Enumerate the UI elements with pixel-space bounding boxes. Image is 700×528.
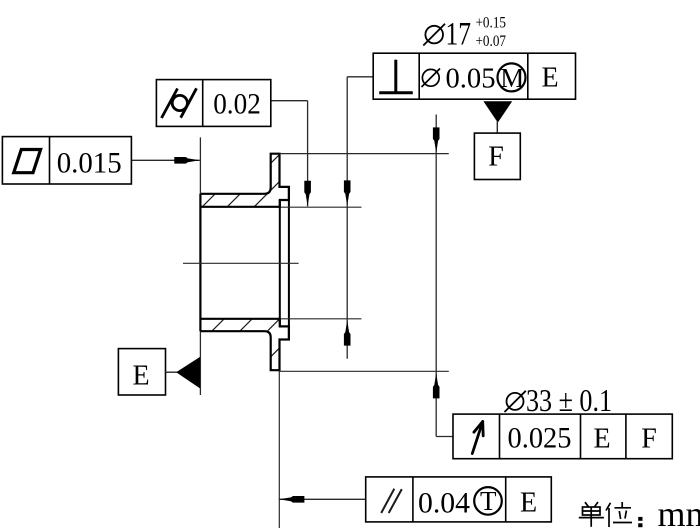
parallelism leader arrow bbox=[279, 496, 305, 503]
part outline top half bbox=[200, 154, 289, 207]
svg-text:M: M bbox=[500, 63, 524, 93]
boss right face edge bbox=[288, 187, 290, 340]
datum E box bbox=[118, 349, 165, 395]
flatness leader arrow bbox=[174, 157, 200, 164]
unit note hanzi wei bbox=[606, 502, 632, 527]
svg-text:0.015: 0.015 bbox=[57, 146, 122, 179]
d17 leader arrow up bbox=[344, 320, 351, 346]
svg-text:+0.15: +0.15 bbox=[476, 15, 507, 32]
centerline bbox=[183, 262, 299, 264]
cylindricity frame bbox=[156, 80, 270, 127]
datum E triangle bbox=[176, 357, 200, 389]
svg-text:0.05: 0.05 bbox=[446, 62, 496, 94]
d17 leader arrow down bbox=[344, 180, 351, 206]
leader perpendicularity/d17 bbox=[347, 77, 373, 359]
hatching bottom wall bbox=[163, 280, 348, 380]
unit note hanzi dan bbox=[579, 502, 604, 527]
d33 arrow top bbox=[433, 127, 440, 152]
flatness frame bbox=[2, 137, 131, 184]
svg-text:0.02: 0.02 bbox=[213, 88, 261, 121]
svg-text:mm: mm bbox=[658, 494, 700, 528]
cylindricity symbol bbox=[162, 88, 197, 118]
modifier M circle bbox=[498, 63, 526, 91]
extension line rim top bbox=[280, 153, 449, 155]
d33 arrow bottom bbox=[433, 373, 440, 399]
extension line bore top bbox=[281, 206, 362, 208]
leader parallelism bbox=[279, 498, 366, 500]
leader cylindricity bbox=[271, 101, 308, 207]
perpendicularity frame bbox=[373, 53, 575, 99]
cylindricity leader arrow bbox=[304, 181, 311, 207]
svg-text:0.025: 0.025 bbox=[508, 421, 572, 454]
parallelism frame bbox=[366, 477, 552, 522]
runout frame bbox=[453, 414, 672, 459]
datum face line bbox=[199, 194, 201, 331]
svg-text:E: E bbox=[593, 424, 610, 455]
svg-text:T: T bbox=[480, 486, 497, 516]
svg-text:E: E bbox=[541, 62, 558, 93]
parallelism symbol bbox=[381, 489, 402, 513]
extension line rim bottom bbox=[279, 370, 449, 372]
leader flatness bbox=[131, 159, 199, 161]
unit note colon bbox=[638, 517, 642, 521]
flange right face extension line bbox=[278, 370, 280, 528]
svg-text:E: E bbox=[520, 488, 537, 519]
datum F box bbox=[474, 133, 520, 179]
svg-text:33 ± 0.1: 33 ± 0.1 bbox=[526, 382, 612, 418]
datum F triangle bbox=[483, 101, 512, 122]
svg-text:F: F bbox=[641, 424, 657, 455]
diameter symbol 0.05 bbox=[422, 69, 441, 88]
part outline bottom half bbox=[200, 319, 289, 370]
datum F stem bbox=[496, 122, 498, 134]
datum E leader bbox=[166, 371, 179, 373]
counterbore bottom edge bbox=[279, 200, 281, 326]
extension line bore bottom bbox=[281, 318, 362, 320]
svg-text:+0.07: +0.07 bbox=[476, 33, 507, 50]
dimension line d33 bbox=[436, 115, 453, 437]
svg-text:17: 17 bbox=[446, 17, 472, 53]
svg-text:0.04: 0.04 bbox=[418, 486, 470, 519]
dimension d33 text bbox=[505, 391, 526, 412]
svg-text:E: E bbox=[132, 360, 149, 391]
runout symbol bbox=[472, 422, 483, 454]
hatching top wall bbox=[179, 140, 321, 230]
modifier T circle bbox=[474, 487, 502, 515]
svg-text:F: F bbox=[488, 141, 504, 172]
datum face line extension bbox=[199, 137, 201, 395]
flatness symbol bbox=[14, 150, 41, 173]
dimension d17 text bbox=[423, 24, 445, 46]
perpendicularity symbol bbox=[379, 60, 413, 93]
